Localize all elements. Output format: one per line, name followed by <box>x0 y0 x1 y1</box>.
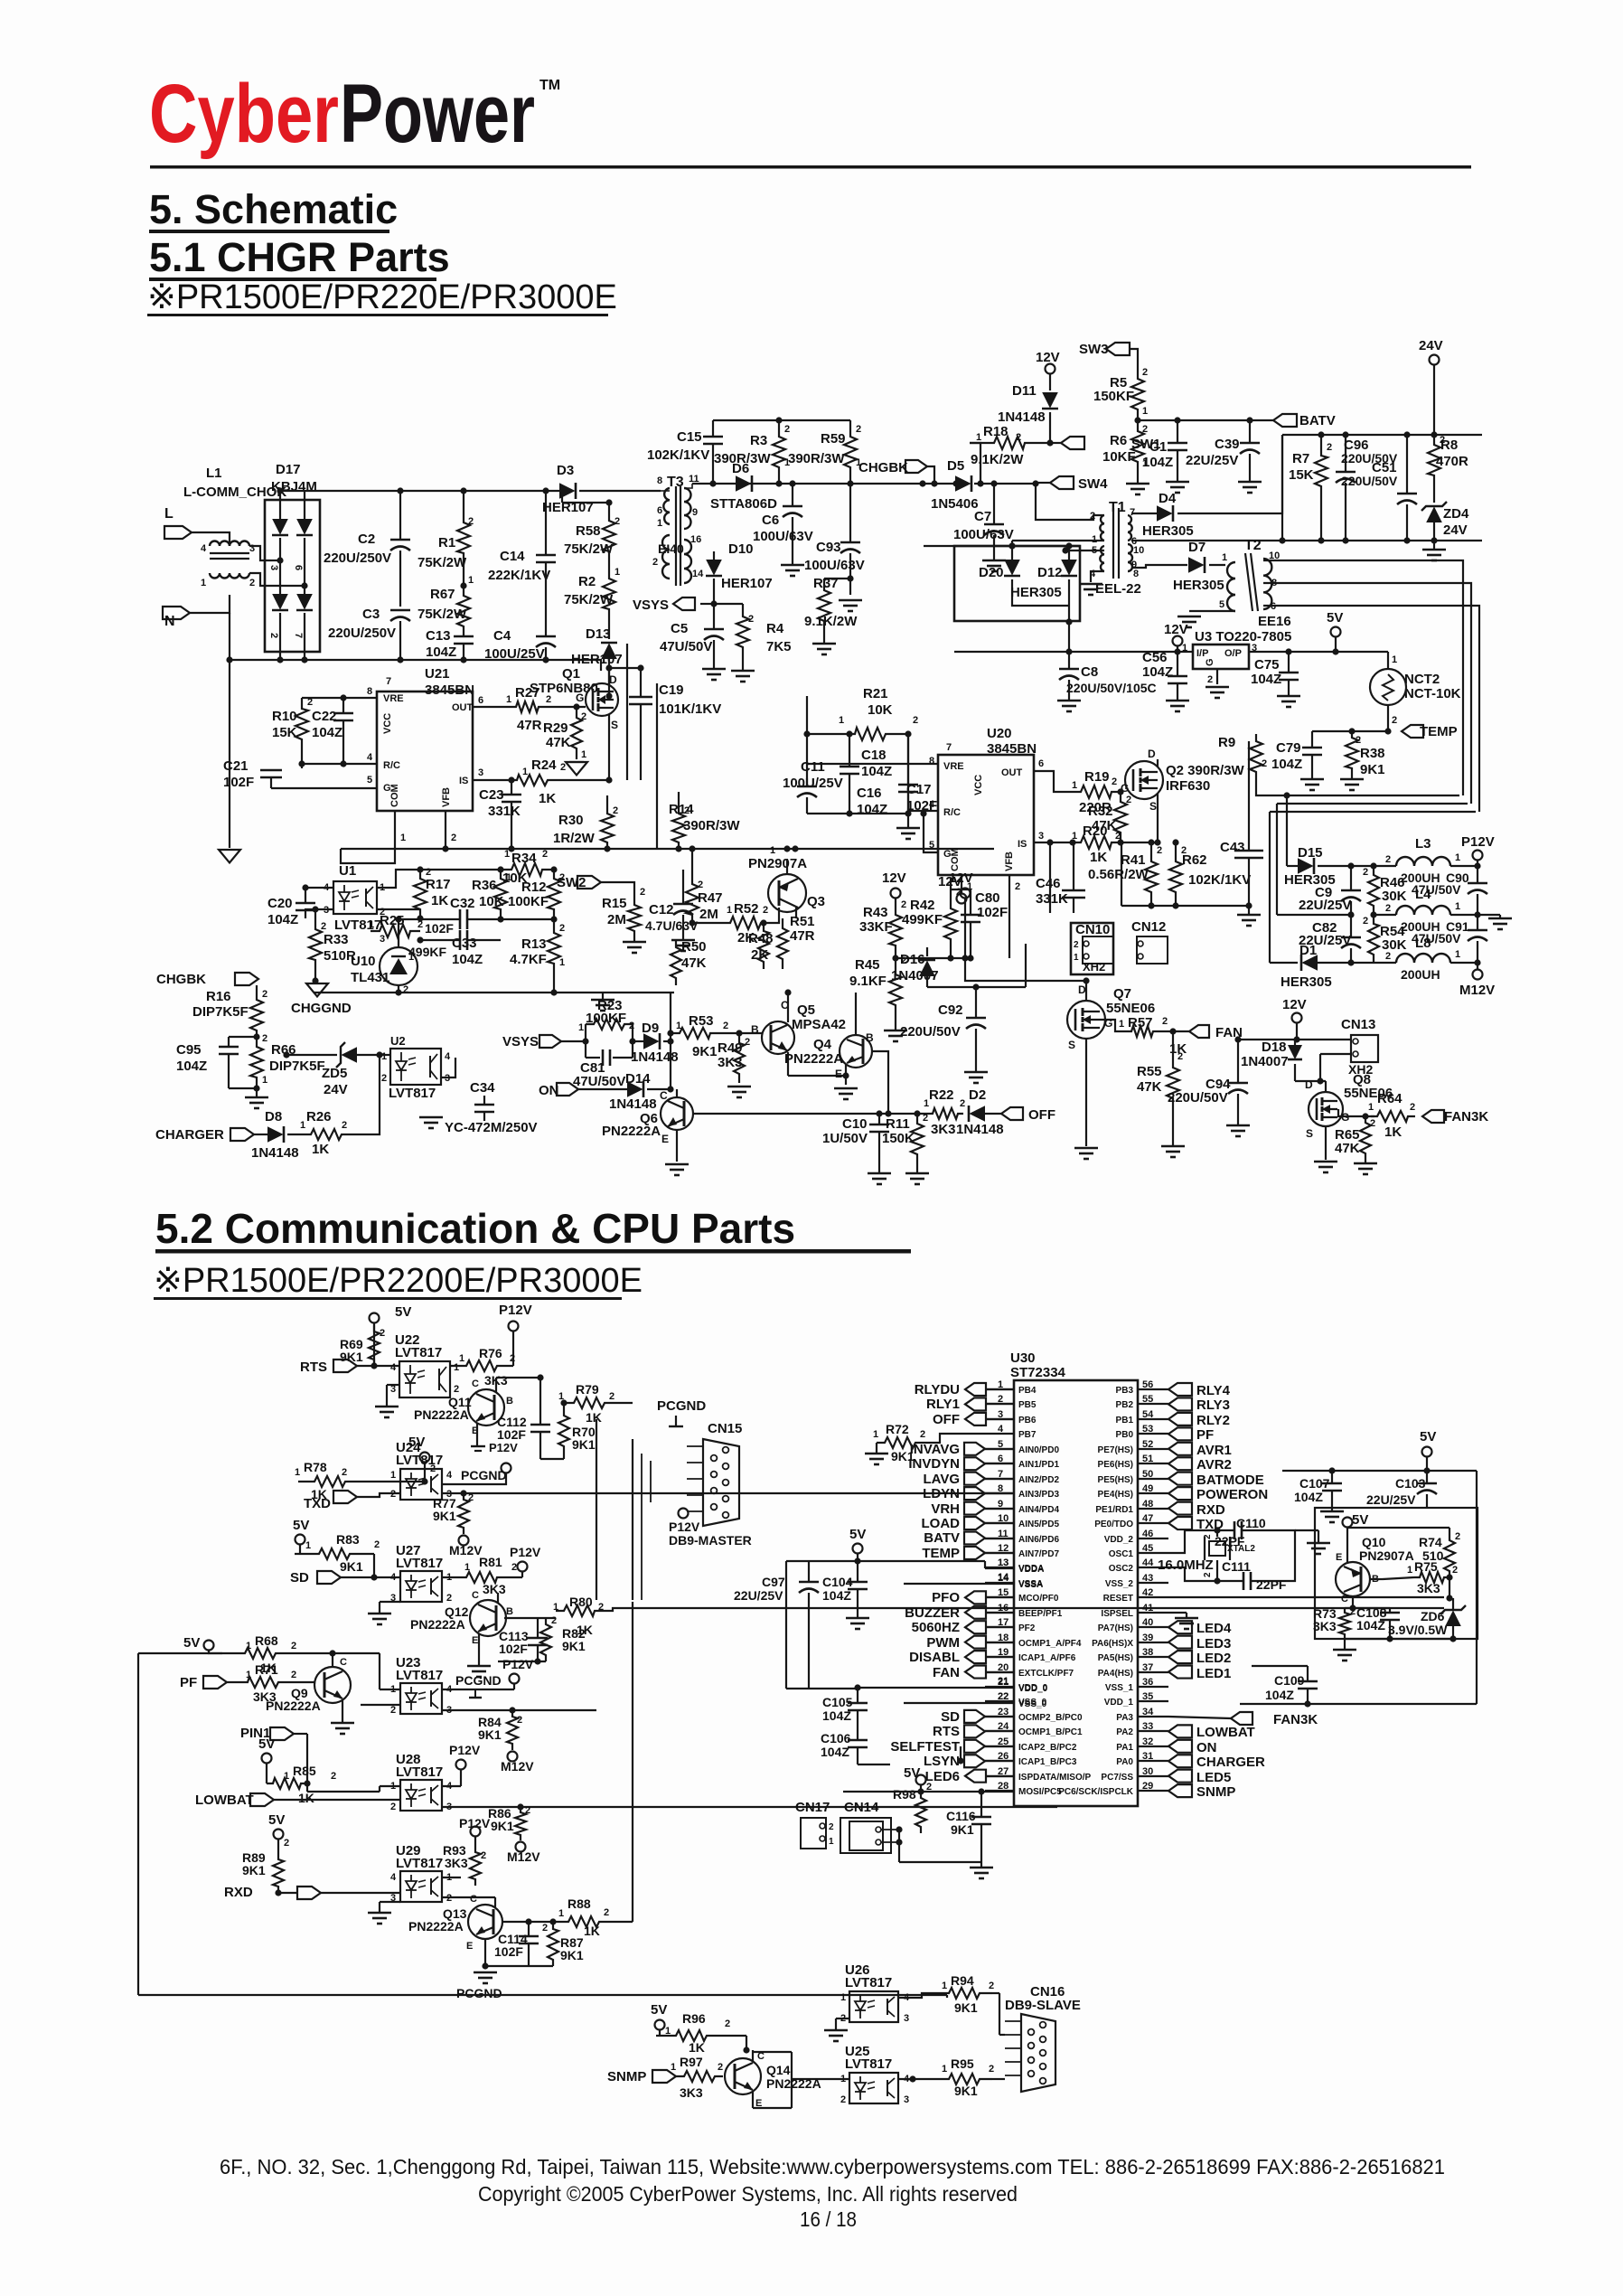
svg-text:ICAP1_A/PF6: ICAP1_A/PF6 <box>1018 1653 1076 1663</box>
svg-text:2: 2 <box>1452 1565 1458 1576</box>
terminal CHGBK <box>858 460 938 487</box>
svg-text:Q14: Q14 <box>766 2063 791 2077</box>
svg-text:1: 1 <box>468 575 474 586</box>
svg-text:OCMP1_B/PC1: OCMP1_B/PC1 <box>1018 1727 1083 1737</box>
svg-text:OCMP2_B/PC0: OCMP2_B/PC0 <box>1018 1713 1083 1723</box>
terminal VSYS 2 <box>502 1034 589 1049</box>
terminal TEMP <box>1402 724 1458 739</box>
pin 25 ICAP2_B/PC2 <box>890 1736 1077 1755</box>
svg-text:R41: R41 <box>1121 852 1146 868</box>
wire bottom bus <box>138 1992 947 1994</box>
svg-text:PB6: PB6 <box>1018 1416 1037 1426</box>
pin 7 AIN2/PD2 <box>923 1469 1059 1487</box>
resistor R15 2M <box>602 887 646 953</box>
svg-text:ST72334: ST72334 <box>1010 1365 1066 1380</box>
svg-text:14: 14 <box>692 569 704 579</box>
svg-text:PF: PF <box>180 1675 197 1690</box>
svg-text:1: 1 <box>1119 1019 1124 1030</box>
svg-text:L4: L4 <box>1415 887 1431 902</box>
svg-text:1: 1 <box>504 849 510 860</box>
transformer T3 EI40 <box>652 474 704 586</box>
capacitor C82 22U/25V <box>1299 911 1361 965</box>
svg-text:8: 8 <box>367 686 372 697</box>
resistor R52 2K <box>689 901 779 946</box>
wire mid bus <box>0 0 1 1</box>
svg-text:1N4148: 1N4148 <box>956 1122 1004 1137</box>
transistor Q2 IRF630 <box>1125 748 1245 842</box>
svg-text:47U/50V: 47U/50V <box>660 639 712 654</box>
svg-text:C: C <box>1341 1594 1348 1604</box>
svg-text:D9: D9 <box>642 1021 659 1036</box>
capacitor C96 220U/50V <box>1336 435 1398 541</box>
svg-text:ON: ON <box>1196 1740 1217 1755</box>
resistor R94 9K1 <box>898 1973 994 2015</box>
diode D16 1N4007 <box>891 947 939 987</box>
svg-text:1: 1 <box>924 1098 929 1109</box>
svg-text:1: 1 <box>942 1981 947 1991</box>
terminal SNMP <box>607 2069 676 2084</box>
svg-text:3: 3 <box>904 2094 909 2105</box>
svg-text:DIP7K5F: DIP7K5F <box>269 1059 325 1074</box>
wire T2 secondary buses <box>1263 560 1479 812</box>
svg-text:41: 41 <box>1142 1603 1153 1614</box>
svg-text:M12V: M12V <box>507 1849 540 1864</box>
terminal SW1 <box>1050 437 1161 452</box>
resistor R48 2K <box>748 919 774 969</box>
svg-text:43: 43 <box>1142 1573 1153 1584</box>
svg-text:9K1: 9K1 <box>954 2084 978 2098</box>
svg-text:47R: 47R <box>517 718 542 733</box>
svg-text:Power: Power <box>340 68 535 160</box>
svg-text:C14: C14 <box>500 549 525 564</box>
thermistor NCT2 NCT-10K <box>1370 652 1461 735</box>
svg-text:C: C <box>472 1590 479 1601</box>
svg-text:30: 30 <box>1142 1766 1153 1777</box>
power 5V lowbat <box>258 1736 275 1783</box>
power P12V q11 emitter <box>471 1441 518 1454</box>
svg-text:2: 2 <box>745 1037 750 1048</box>
svg-text:ZD6: ZD6 <box>1421 1609 1445 1623</box>
capacitor C39 22U/25V <box>1186 420 1262 493</box>
resistor R84 9K1 <box>478 1707 534 1774</box>
pin 12 AIN7/PD7 <box>922 1543 1059 1561</box>
svg-text:MCO/PF0: MCO/PF0 <box>1018 1594 1059 1604</box>
pin 55 PB2 <box>1116 1394 1230 1413</box>
IC U20 3845BN <box>929 726 1044 875</box>
svg-text:D12: D12 <box>1037 565 1063 580</box>
svg-text:VCC: VCC <box>973 775 984 795</box>
resistor R14 390R/3W <box>669 792 740 849</box>
svg-text:1K: 1K <box>689 2040 705 2055</box>
pin 56 PB3 <box>1116 1379 1231 1398</box>
svg-text:101K/1KV: 101K/1KV <box>659 701 721 717</box>
resistor R67 75K/2W <box>417 582 470 636</box>
svg-text:I/P: I/P <box>1196 648 1208 659</box>
svg-text:T2: T2 <box>1244 538 1262 553</box>
svg-text:VSS_1: VSS_1 <box>1105 1683 1134 1693</box>
svg-text:R50: R50 <box>681 939 707 955</box>
svg-text:C10: C10 <box>842 1116 868 1132</box>
svg-text:LED4: LED4 <box>1196 1621 1232 1636</box>
svg-text:331K: 331K <box>1036 891 1068 907</box>
svg-text:102F: 102F <box>425 921 454 936</box>
svg-text:C19: C19 <box>659 682 684 698</box>
svg-text:R78: R78 <box>304 1460 327 1474</box>
capacitor C108 104Z <box>1356 1605 1400 1639</box>
svg-text:R13: R13 <box>521 936 547 952</box>
svg-text:PA6(HS)X: PA6(HS)X <box>1092 1639 1133 1649</box>
svg-text:C3: C3 <box>362 607 380 622</box>
wire ispsel gnd <box>1168 1613 1198 1629</box>
svg-text:2: 2 <box>1074 940 1079 950</box>
wire top bus <box>277 487 661 500</box>
svg-text:1: 1 <box>1455 852 1460 863</box>
svg-text:55NE06: 55NE06 <box>1106 1001 1155 1016</box>
svg-text:DIP7K5F: DIP7K5F <box>192 1004 249 1020</box>
diode D10 HER107 <box>706 541 773 601</box>
pin 36 VSS_1 <box>1105 1677 1168 1693</box>
svg-text:IS: IS <box>1018 839 1027 850</box>
svg-text:R59: R59 <box>821 431 846 447</box>
svg-text:1: 1 <box>305 1540 311 1551</box>
power 5V vdda <box>849 1527 866 1561</box>
svg-text:5: 5 <box>929 840 934 851</box>
svg-text:15K: 15K <box>1289 467 1314 483</box>
svg-text:Q3: Q3 <box>807 894 825 909</box>
svg-text:22U/25V: 22U/25V <box>1366 1492 1416 1507</box>
svg-text:P12V: P12V <box>489 1441 518 1454</box>
pin 27 ISPDATA/MISO/P <box>925 1766 1092 1784</box>
svg-text:BUZZER: BUZZER <box>905 1605 960 1621</box>
terminal RTS <box>300 1360 399 1375</box>
resistor R97 3K3 <box>671 2055 723 2100</box>
IC U21 3845BN <box>367 666 483 811</box>
svg-text:C33: C33 <box>452 936 477 951</box>
optocoupler U22 LVT817 <box>375 1332 459 1417</box>
resistor R81 3K3 <box>442 1555 522 1596</box>
svg-text:PCGND: PCGND <box>455 1673 502 1688</box>
diode D8 1N4148 <box>251 1109 304 1161</box>
svg-text:R43: R43 <box>863 905 888 920</box>
resistor R75 3K3 <box>1407 1559 1458 1598</box>
svg-text:8: 8 <box>1133 569 1139 579</box>
power 5V snmp <box>651 2002 671 2037</box>
capacitor C22 104Z <box>312 698 353 764</box>
power 12V q7 node <box>949 870 973 958</box>
svg-text:5V: 5V <box>1420 1429 1436 1444</box>
svg-text:1: 1 <box>1142 406 1148 417</box>
terminal FAN3K 2 <box>1168 1712 1318 1727</box>
svg-text:VRE: VRE <box>943 761 964 772</box>
pin 14 VSSA <box>985 1573 1043 1589</box>
svg-text:R/C: R/C <box>383 760 400 771</box>
resistor R26 1K <box>300 1055 380 1157</box>
svg-text:INVDYN: INVDYN <box>908 1456 960 1472</box>
heading 5.2 Communication & CPU Parts <box>155 1205 911 1254</box>
wire mosi net <box>843 1788 1014 1862</box>
svg-text:3K3: 3K3 <box>680 2085 703 2100</box>
svg-text:M12V: M12V <box>449 1543 483 1557</box>
svg-text:102F: 102F <box>223 775 254 790</box>
svg-text:100U/63V: 100U/63V <box>804 558 865 573</box>
svg-text:PA0: PA0 <box>1116 1757 1133 1767</box>
svg-text:R7: R7 <box>1292 451 1309 466</box>
svg-text:CN10: CN10 <box>1075 922 1110 937</box>
svg-text:2: 2 <box>718 2062 723 2073</box>
svg-text:102K/1KV: 102K/1KV <box>647 447 709 463</box>
svg-text:P12V: P12V <box>502 1657 534 1671</box>
pin 46 VDD_2 <box>1104 1529 1168 1545</box>
svg-text:R6: R6 <box>1110 433 1127 448</box>
svg-text:4: 4 <box>445 1051 451 1062</box>
capacitor C34 YC-472M/250V <box>419 1080 538 1135</box>
wire filter feed buses <box>1270 792 1290 963</box>
svg-text:U10: U10 <box>351 954 376 969</box>
pin 44 OSC2 <box>1109 1557 1168 1574</box>
terminal VSYS <box>633 598 718 613</box>
svg-text:L3: L3 <box>1415 836 1431 852</box>
svg-text:2: 2 <box>960 1098 965 1109</box>
svg-text:22U/25V: 22U/25V <box>1186 453 1238 468</box>
svg-text:IRF630: IRF630 <box>1166 778 1210 794</box>
svg-text:VDD_2: VDD_2 <box>1104 1535 1134 1545</box>
svg-text:1: 1 <box>1368 1102 1374 1113</box>
svg-text:L8: L8 <box>1415 936 1431 951</box>
svg-text:D: D <box>609 673 617 686</box>
svg-text:CHGGND: CHGGND <box>291 1001 352 1016</box>
connector CN14 <box>840 1800 921 1853</box>
svg-text:40: 40 <box>1142 1617 1153 1628</box>
resistor R4 7K5 <box>714 604 792 682</box>
svg-text:2: 2 <box>284 1838 289 1849</box>
svg-text:1N4007: 1N4007 <box>1241 1054 1289 1069</box>
svg-text:R22: R22 <box>929 1087 954 1103</box>
svg-text:PC7/SS: PC7/SS <box>1101 1773 1133 1783</box>
svg-text:1: 1 <box>839 715 844 726</box>
capacitor C46 331K <box>1036 842 1085 913</box>
pin 18 OCMP1_A/PF4 <box>926 1633 1082 1651</box>
svg-text:E: E <box>1336 1552 1342 1563</box>
svg-text:HER305: HER305 <box>1010 585 1062 600</box>
capacitor C18 104Z <box>840 730 892 814</box>
svg-text:2: 2 <box>542 849 548 860</box>
pin 28 MOSI/PC5 <box>985 1781 1062 1797</box>
svg-text:E: E <box>466 1941 473 1952</box>
resistor R71 3K3 <box>227 1662 315 1704</box>
wire off row <box>693 1110 927 1116</box>
svg-text:47K: 47K <box>681 955 707 971</box>
svg-text:OSC2: OSC2 <box>1109 1564 1134 1574</box>
wire D9 node riser <box>667 993 673 1093</box>
power 5V sd <box>293 1518 311 1554</box>
svg-text:VRE: VRE <box>383 693 404 704</box>
capacitor C106 104Z <box>821 1731 890 1764</box>
capacitor C92 220U/50V <box>900 944 1026 1083</box>
svg-text:1K: 1K <box>312 1142 329 1157</box>
resistor R21 10K <box>803 686 938 811</box>
inductor L4 200UH <box>1277 887 1512 934</box>
transistor Q8 55NE06 <box>1295 1072 1393 1172</box>
terminal FAN <box>1189 1025 1243 1040</box>
svg-text:2: 2 <box>454 1384 459 1395</box>
resistor R87 9K1 <box>542 1922 584 1966</box>
terminal ON <box>539 1083 627 1098</box>
transistor Q7 55NE06 <box>962 955 1189 1159</box>
svg-text:9K1: 9K1 <box>954 2000 978 2015</box>
wire txd out <box>442 1492 1012 1494</box>
resistor R95 9K1 <box>898 2056 994 2098</box>
svg-text:R26: R26 <box>306 1109 332 1124</box>
svg-text:LED2: LED2 <box>1196 1651 1231 1666</box>
svg-text:AIN7/PD7: AIN7/PD7 <box>1018 1549 1059 1559</box>
svg-text:C15: C15 <box>677 429 702 445</box>
svg-text:104Z: 104Z <box>452 952 483 967</box>
svg-text:R58: R58 <box>576 523 601 539</box>
svg-text:Copyright ©2005 CyberPower Sys: Copyright ©2005 CyberPower Systems, Inc.… <box>478 2182 1018 2206</box>
svg-text:2: 2 <box>1385 951 1391 962</box>
power 5V led6 <box>904 1765 932 1793</box>
svg-text:C23: C23 <box>479 787 504 803</box>
svg-text:C21: C21 <box>223 758 249 774</box>
pin 35 VDD_1 <box>1104 1691 1168 1708</box>
svg-text:ISPDATA/MISO/P: ISPDATA/MISO/P <box>1018 1773 1092 1783</box>
svg-text:3K3: 3K3 <box>1417 1581 1440 1595</box>
svg-text:D: D <box>1078 983 1086 996</box>
svg-text:220U/250V: 220U/250V <box>324 550 391 566</box>
resistor R20 1K <box>1034 823 1161 865</box>
svg-text:R74: R74 <box>1419 1535 1442 1549</box>
svg-text:499KF: 499KF <box>408 945 446 959</box>
transistor Q10 PN2907A <box>1336 1535 1414 1608</box>
capacitor C107 104Z <box>1294 1471 1344 1522</box>
svg-text:2M: 2M <box>699 907 718 922</box>
resistor R96 1K <box>656 2011 746 2055</box>
svg-text:2: 2 <box>390 1489 396 1500</box>
svg-text:U21: U21 <box>425 666 450 682</box>
svg-text:R98: R98 <box>893 1787 916 1802</box>
svg-text:DB9-SLAVE: DB9-SLAVE <box>1005 1998 1081 2013</box>
svg-text:6: 6 <box>1038 758 1044 769</box>
svg-text:50: 50 <box>1142 1469 1153 1480</box>
svg-text:PA7(HS): PA7(HS) <box>1098 1623 1133 1633</box>
svg-text:VSS_2: VSS_2 <box>1105 1579 1134 1589</box>
svg-text:R/C: R/C <box>943 807 961 818</box>
svg-text:LDYN: LDYN <box>923 1486 960 1501</box>
svg-text:RTS: RTS <box>300 1360 327 1375</box>
wire secondary rail <box>924 546 1181 655</box>
wire D12 bus <box>0 0 1 1</box>
svg-text:5V: 5V <box>258 1736 275 1752</box>
svg-text:2: 2 <box>390 1705 396 1716</box>
svg-text:S: S <box>1068 1039 1075 1051</box>
svg-text:R24: R24 <box>531 757 557 773</box>
capacitor C51 220U/50V <box>1341 435 1417 541</box>
resistor R65 47K <box>1335 1116 1377 1174</box>
svg-text:LAVG: LAVG <box>923 1472 960 1487</box>
pin 21 VDD_0 <box>985 1677 1048 1693</box>
svg-text:LOAD: LOAD <box>922 1516 961 1531</box>
triangle CHGGND <box>291 983 352 1016</box>
svg-text:CN17: CN17 <box>795 1800 830 1815</box>
svg-text:C4: C4 <box>493 628 511 644</box>
pin 6 AIN1/PD1 <box>908 1454 1059 1472</box>
svg-text:E: E <box>835 1068 842 1080</box>
svg-text:2: 2 <box>1440 435 1445 446</box>
svg-text:LVT817: LVT817 <box>395 1345 442 1360</box>
svg-text:IS: IS <box>459 776 468 786</box>
svg-text:1: 1 <box>1392 654 1397 665</box>
svg-text:C95: C95 <box>176 1042 202 1058</box>
svg-text:2: 2 <box>698 880 703 890</box>
svg-text:3.9V/0.5W: 3.9V/0.5W <box>1388 1623 1448 1637</box>
svg-text:CHARGER: CHARGER <box>155 1127 224 1143</box>
svg-text:104Z: 104Z <box>312 725 342 740</box>
connector CN16 DB9-SLAVE <box>992 1984 1081 2092</box>
pin 2 PB5 <box>926 1394 1037 1412</box>
capacitor C104 104Z <box>822 1561 869 1629</box>
svg-text:R3: R3 <box>750 433 767 448</box>
svg-text:R83: R83 <box>336 1532 360 1547</box>
svg-text:100U/63V: 100U/63V <box>953 527 1014 542</box>
svg-text:15K: 15K <box>272 725 297 740</box>
svg-text:9K1: 9K1 <box>572 1437 596 1452</box>
capacitor C112 102F <box>496 1374 564 1459</box>
resistor R78 1K <box>295 1460 428 1501</box>
svg-text:1N4148: 1N4148 <box>609 1096 657 1112</box>
terminal BATV <box>1273 413 1336 428</box>
svg-text:2: 2 <box>1162 1016 1168 1027</box>
svg-text:220U/50V: 220U/50V <box>900 1024 961 1040</box>
diode D15 HER305 <box>1284 845 1396 888</box>
resistor R72 9K1 <box>865 1422 985 1464</box>
svg-text:RESET: RESET <box>1103 1594 1133 1604</box>
pin 37 PA4(HS) <box>1098 1662 1232 1681</box>
svg-text:C80: C80 <box>975 890 1000 906</box>
svg-text:D11: D11 <box>1012 383 1037 399</box>
svg-text:2: 2 <box>609 1391 614 1402</box>
svg-text:2: 2 <box>559 923 565 934</box>
svg-text:T1: T1 <box>1109 500 1126 515</box>
svg-text:R88: R88 <box>568 1896 591 1911</box>
svg-text:C: C <box>472 1379 479 1389</box>
power 5V q10 <box>1343 1512 1369 1563</box>
svg-text:1N5406: 1N5406 <box>931 496 979 512</box>
svg-text:3K3: 3K3 <box>445 1856 468 1870</box>
resistor R10 15K <box>272 694 377 749</box>
power P12V pf <box>442 1657 534 1698</box>
svg-text:Q2 390R/3W: Q2 390R/3W <box>1166 763 1245 778</box>
svg-text:37: 37 <box>1142 1662 1153 1673</box>
svg-text:10K: 10K <box>479 894 504 909</box>
svg-text:1N4148: 1N4148 <box>251 1145 299 1161</box>
svg-text:220U/250V: 220U/250V <box>328 626 396 641</box>
terminal L <box>164 506 230 546</box>
capacitor C23 331K <box>479 780 521 849</box>
svg-text:2: 2 <box>403 984 408 995</box>
svg-text:R81: R81 <box>479 1555 502 1569</box>
svg-text:2: 2 <box>511 1562 517 1573</box>
svg-text:2: 2 <box>1157 845 1162 856</box>
svg-text:48: 48 <box>1142 1499 1153 1510</box>
svg-text:2: 2 <box>684 805 690 816</box>
power 5V NCT <box>1327 610 1343 652</box>
svg-text:LOWBAT: LOWBAT <box>195 1793 254 1808</box>
svg-text:2: 2 <box>1370 1118 1375 1129</box>
transistor Q6 PN2222A <box>602 1089 693 1175</box>
svg-text:D13: D13 <box>586 626 611 642</box>
svg-text:1: 1 <box>976 432 981 443</box>
svg-text:C: C <box>660 1089 668 1102</box>
